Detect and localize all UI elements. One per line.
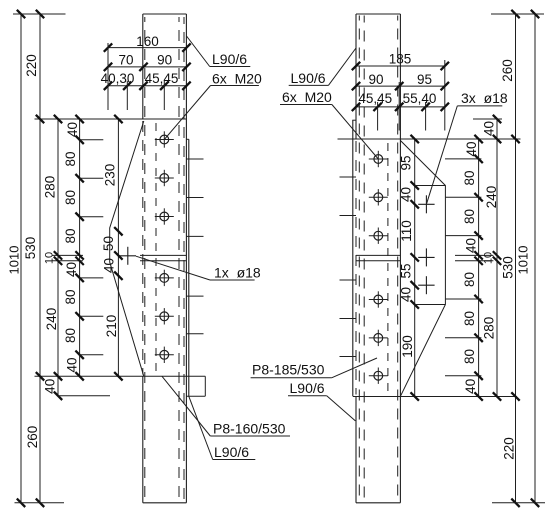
right splice plate top edge	[338, 138, 521, 140]
left batten marks	[187, 158, 204, 160]
left column hidden flange lines (dashed)	[144, 17, 146, 501]
dim 70/90 line	[108, 66, 187, 68]
svg-text:10: 10	[43, 252, 55, 264]
svg-text:40: 40	[481, 121, 496, 136]
label L90/6 bottom-right detail	[327, 396, 356, 421]
dim chain 280/10/240/40 (left)	[57, 119, 59, 396]
dim chain 1010 (left)	[20, 14, 22, 503]
left bolt group 6x M20	[160, 135, 169, 144]
svg-text:220: 220	[24, 54, 39, 77]
svg-text:55: 55	[398, 263, 413, 278]
svg-text:50: 50	[101, 236, 116, 251]
svg-text:40: 40	[64, 357, 79, 372]
left splice plate P8-160/530 dashed gauge line	[155, 123, 157, 373]
label L90/6 top-right detail	[328, 48, 356, 85]
right column splice joint gap lines	[356, 254, 400, 256]
left angle leg projection polyline	[110, 121, 144, 376]
left top dim extension lines	[107, 43, 109, 110]
left 40 extension at bottom	[58, 395, 110, 397]
svg-text:P8-160/530: P8-160/530	[213, 421, 286, 437]
dim chain 1010 (right)	[534, 14, 536, 503]
svg-text:110: 110	[399, 220, 414, 242]
svg-text:220: 220	[501, 437, 516, 460]
left column splice joint gap lines	[140, 254, 186, 256]
left extension line top	[13, 13, 66, 15]
svg-text:40: 40	[463, 238, 478, 253]
svg-text:260: 260	[25, 426, 40, 449]
svg-text:6x M20: 6x M20	[212, 71, 262, 87]
left angle L90/6 bottom bracket	[187, 395, 206, 397]
svg-text:6x M20: 6x M20	[282, 89, 332, 105]
left bolt extension lines	[80, 139, 104, 141]
label 6x M20 left	[164, 86, 210, 140]
svg-text:95: 95	[398, 155, 413, 170]
right bolt extension lines	[445, 158, 481, 160]
right hole-chain extension lines	[415, 185, 446, 187]
left splice plate bottom edge	[35, 375, 206, 377]
svg-text:80: 80	[63, 289, 78, 304]
dim 160 line	[108, 47, 187, 49]
right angle L90/6 edge line	[352, 120, 354, 396]
svg-text:160: 160	[136, 34, 159, 49]
svg-text:40: 40	[398, 187, 413, 202]
label P8-185/530	[332, 358, 377, 378]
right splice plate P8-185/530 dashed gauge line	[387, 143, 389, 393]
svg-text:190: 190	[400, 335, 415, 358]
svg-text:80: 80	[462, 272, 477, 287]
dim chain 40/240/280 (right)	[496, 119, 498, 397]
svg-text:80: 80	[63, 190, 78, 205]
left angle L90/6 edge line	[188, 139, 190, 396]
svg-text:55,40: 55,40	[403, 91, 437, 106]
dim 90/95 line	[356, 85, 445, 87]
svg-text:80: 80	[462, 209, 477, 224]
right top dim extension lines	[377, 102, 379, 131]
svg-text:1x ø18: 1x ø18	[214, 265, 261, 281]
svg-text:80: 80	[462, 170, 477, 185]
svg-text:40: 40	[42, 379, 57, 394]
right angle L90/6 top end	[352, 119, 356, 121]
svg-text:90: 90	[368, 72, 383, 87]
svg-text:45,45: 45,45	[358, 91, 392, 106]
svg-text:45,45: 45,45	[145, 71, 179, 86]
label 1x ø18	[136, 256, 210, 280]
svg-text:40: 40	[101, 258, 116, 273]
right bolt group 6x M20	[374, 155, 383, 164]
label L90/6 top-left	[187, 36, 210, 67]
svg-text:530: 530	[500, 256, 515, 279]
svg-text:80: 80	[63, 328, 78, 343]
label L90/6 bottom-left	[189, 396, 213, 459]
svg-text:40: 40	[64, 262, 79, 277]
label 6x M20 right detail	[332, 105, 378, 160]
dim chain 220/530/260 (left)	[39, 14, 41, 503]
svg-text:230: 230	[102, 164, 117, 187]
svg-text:90: 90	[157, 52, 172, 67]
svg-text:40: 40	[463, 379, 478, 394]
svg-text:95: 95	[417, 72, 432, 87]
svg-text:40: 40	[65, 122, 80, 137]
svg-text:P8-185/530: P8-185/530	[252, 362, 325, 378]
svg-text:80: 80	[462, 311, 477, 326]
svg-text:L90/6: L90/6	[214, 444, 249, 460]
svg-text:L90/6: L90/6	[212, 51, 247, 67]
svg-text:240: 240	[44, 308, 59, 331]
right angle leg projection polyline	[400, 141, 445, 397]
svg-text:260: 260	[500, 59, 515, 82]
svg-text:L90/6: L90/6	[290, 380, 325, 396]
svg-text:10: 10	[482, 252, 494, 264]
svg-text:L90/6: L90/6	[291, 70, 326, 86]
label 3x ø18	[426, 106, 457, 204]
dim 40,30,45,45 line	[108, 85, 187, 87]
dim fine chain 40/80/80/80 + 40/80/80/40 (left)	[79, 119, 81, 376]
svg-text:40: 40	[464, 141, 479, 156]
svg-text:70: 70	[118, 52, 133, 67]
left column outline	[143, 13, 187, 15]
svg-text:240: 240	[484, 186, 499, 209]
svg-text:40: 40	[398, 287, 413, 302]
left hole 1x ø18 cross	[120, 255, 136, 257]
svg-text:40,30: 40,30	[101, 71, 135, 86]
svg-text:1010: 1010	[516, 246, 531, 275]
dim 185 line	[356, 65, 445, 67]
svg-text:80: 80	[462, 349, 477, 364]
svg-text:530: 530	[23, 237, 38, 260]
right splice plate bottom edge	[353, 396, 517, 398]
dim chain 95/40/110/55/40/190 (right)	[414, 139, 416, 397]
right 40 extension at top	[473, 118, 502, 120]
right extension line top	[491, 13, 544, 15]
dim chain 230/50/40/210 (left)	[117, 119, 119, 376]
svg-text:280: 280	[42, 176, 57, 199]
left splice plate top edge	[35, 118, 187, 120]
dim chain 260/530/220 (right)	[515, 14, 517, 503]
svg-text:80: 80	[63, 228, 78, 243]
dim fine chain 40/80/80/40 + 80/80/80/40 (right)	[478, 139, 480, 397]
right batten marks	[340, 176, 357, 178]
svg-text:185: 185	[389, 51, 412, 66]
svg-text:1010: 1010	[7, 246, 22, 275]
svg-text:3x ø18: 3x ø18	[461, 90, 508, 106]
left extension line bottom	[15, 502, 65, 504]
svg-text:280: 280	[481, 317, 496, 340]
right column outline	[356, 13, 400, 15]
dim 45,45,55,40 line	[356, 106, 445, 108]
label P8-160/530	[162, 376, 210, 436]
right column hidden flange lines (dashed)	[358, 16, 360, 502]
right extension line bottom	[492, 502, 545, 504]
right holes 3x ø18 crosses	[418, 203, 434, 205]
svg-text:210: 210	[104, 315, 119, 338]
svg-text:80: 80	[63, 151, 78, 166]
